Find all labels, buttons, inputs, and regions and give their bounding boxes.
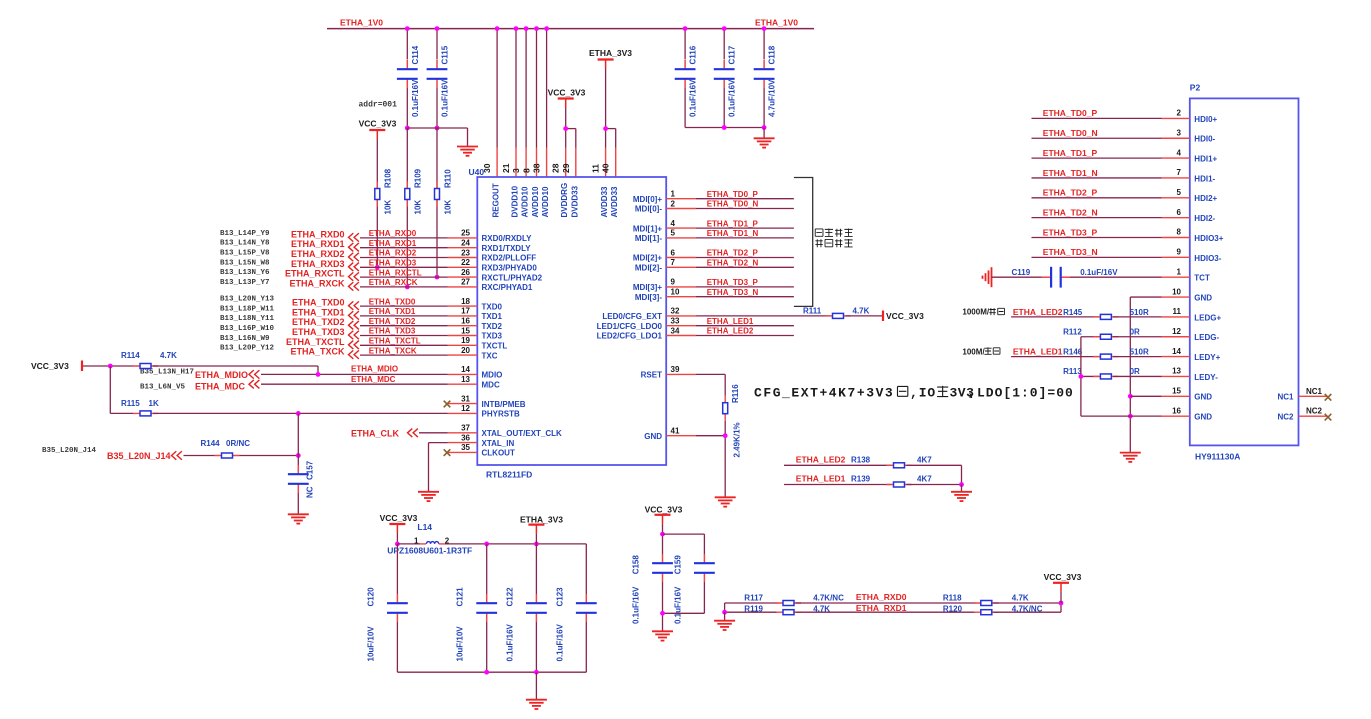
svg-text:ETHA_TD2_N: ETHA_TD2_N <box>1043 207 1098 217</box>
pin 5 HDI2+ of P2 <box>1162 197 1190 199</box>
pin 16 TXD2 of U40 <box>448 325 478 327</box>
svg-text:MDI[2]-: MDI[2]- <box>635 264 662 273</box>
svg-text:INTB/PMEB: INTB/PMEB <box>482 400 526 409</box>
op-amp U40 RTL8211FD chip body <box>477 177 666 465</box>
svg-text:GND: GND <box>1194 413 1212 422</box>
wire ETHA_TD2_P from U40 <box>696 257 794 259</box>
svg-text:HDI1-: HDI1- <box>1194 174 1215 183</box>
svg-text:R119: R119 <box>744 604 763 613</box>
connector P2 HY911130A body <box>1190 98 1299 445</box>
svg-text:VCC_3V3: VCC_3V3 <box>645 505 683 515</box>
wire to ground R117 block <box>724 612 726 620</box>
wire rail to C114 <box>406 29 408 60</box>
wire C114 to gnd line <box>406 88 408 128</box>
svg-text:4.7K: 4.7K <box>160 351 177 360</box>
pin 6 HDI2- of P2 <box>1162 217 1190 219</box>
junction rail pin 21 <box>514 26 519 31</box>
svg-text:16: 16 <box>1172 406 1181 415</box>
svg-text:ETHA_LED1: ETHA_LED1 <box>1013 347 1063 357</box>
svg-text:21: 21 <box>501 163 511 173</box>
resistor R146 510R <box>1093 356 1118 358</box>
junction R144 C157 <box>296 453 301 458</box>
junction C121 bottom <box>484 670 489 675</box>
svg-text:3: 3 <box>511 168 521 173</box>
wire R111 to VCC <box>846 315 883 317</box>
svg-text:REGOUT: REGOUT <box>492 183 501 217</box>
svg-text:ETHA_TXCTL: ETHA_TXCTL <box>369 337 421 346</box>
svg-text:ETHA_RXD2: ETHA_RXD2 <box>291 249 345 259</box>
svg-text:11: 11 <box>591 164 601 173</box>
svg-text:10K: 10K <box>384 200 393 215</box>
wire ETHA_3V3 to pin11/40 <box>605 69 607 148</box>
junction ETHA_3V3 pins 11 40 <box>603 126 608 131</box>
svg-text:0.1uF/16V: 0.1uF/16V <box>673 586 682 624</box>
wire rail to C116 <box>684 29 686 60</box>
svg-text:VCC_3V3: VCC_3V3 <box>380 513 418 523</box>
pin 20 TXC of U40 <box>448 354 478 356</box>
wire R113 to P2 LEDY- <box>1113 375 1162 377</box>
capacitor C157 NC <box>297 465 299 474</box>
svg-text:HY911130A: HY911130A <box>1195 452 1240 462</box>
svg-text:ETHA_RXCK: ETHA_RXCK <box>289 278 345 288</box>
wire R144 to C157 <box>240 455 299 457</box>
svg-text:R110: R110 <box>444 169 453 188</box>
svg-text:ETHA_TD0_N: ETHA_TD0_N <box>1043 128 1098 138</box>
svg-text:35: 35 <box>461 443 470 452</box>
wire R146 to P2 LEDY+ <box>1113 356 1162 358</box>
ground P2 <box>1120 452 1141 454</box>
svg-text:RXD0/RXDLY: RXD0/RXDLY <box>482 234 533 243</box>
svg-text:LED1/CFG_LDO0: LED1/CFG_LDO0 <box>597 322 663 331</box>
svg-text:ETHA_TXD3: ETHA_TXD3 <box>292 327 345 337</box>
svg-text:ETHA_RXD1: ETHA_RXD1 <box>856 603 907 613</box>
svg-text:RSET: RSET <box>641 371 662 380</box>
svg-text:31: 31 <box>461 394 470 403</box>
no-connect X NC1 <box>1325 394 1332 401</box>
pin 18 TXD0 of U40 <box>448 305 478 307</box>
pin 14 LEDY+ of P2 <box>1162 356 1190 358</box>
pin 14 MDIO of U40 <box>448 373 478 375</box>
capacitor C118 4.7uF/10V <box>763 60 765 69</box>
svg-text:10uF/10V: 10uF/10V <box>366 626 375 662</box>
wire VCC to C158 <box>662 524 664 554</box>
svg-text:RXD3/PHYAD0: RXD3/PHYAD0 <box>482 264 538 273</box>
junction on rail at C114 <box>405 26 410 31</box>
svg-text:100M/: 100M/ <box>962 347 985 356</box>
svg-text:ETHA_LED2: ETHA_LED2 <box>1013 307 1063 317</box>
svg-text:0.1uF/16V: 0.1uF/16V <box>632 586 641 624</box>
svg-text:B13_L13P_Y7: B13_L13P_Y7 <box>220 279 270 287</box>
capacitor C123 0.1uF/16V <box>585 544 587 594</box>
svg-text:ETHA_LED2: ETHA_LED2 <box>707 327 754 336</box>
svg-text:4.7K: 4.7K <box>853 307 870 316</box>
svg-text:TXD0: TXD0 <box>482 302 503 311</box>
wire ETHA_TD0_P to P2 <box>1032 117 1162 119</box>
svg-text:MDI[0]+: MDI[0]+ <box>633 195 662 204</box>
svg-text:B13_L13N_Y6: B13_L13N_Y6 <box>220 269 270 277</box>
svg-text:0.1uF/16V: 0.1uF/16V <box>728 79 737 117</box>
pin 30 REGOUT of U40 <box>496 148 498 178</box>
capacitor C119 0.1uF/16V <box>991 267 993 287</box>
wire ETHA_TD1_N from U40 <box>696 237 794 239</box>
ground C158 <box>652 630 673 632</box>
svg-text:R109: R109 <box>414 168 423 188</box>
svg-text:ETHA_RXD0: ETHA_RXD0 <box>369 229 417 238</box>
wire ETHA_TD3_N from U40 <box>696 296 794 298</box>
junction C158 top <box>660 532 665 537</box>
ground R116 <box>715 496 736 498</box>
svg-text:17: 17 <box>461 307 470 316</box>
wire ETHA_TD1_P from U40 <box>696 227 794 229</box>
svg-text:TXD3: TXD3 <box>482 332 503 341</box>
svg-text:13: 13 <box>1172 367 1181 376</box>
junction R110 to ETHA_RXCTL <box>435 275 440 280</box>
svg-text:MDI[1]-: MDI[1]- <box>635 234 662 243</box>
svg-text:5: 5 <box>671 229 676 238</box>
svg-text:B13_L15N_W8: B13_L15N_W8 <box>220 259 270 267</box>
wire GND pin to node <box>696 435 725 437</box>
svg-text:20: 20 <box>461 346 470 355</box>
svg-text:14: 14 <box>1172 347 1181 356</box>
svg-text:MDI[2]+: MDI[2]+ <box>633 254 662 263</box>
resistor R139 4K7 <box>887 484 912 486</box>
pin 5 MDI[1]- of U40 <box>666 237 696 239</box>
wire to bottom ground <box>535 672 537 699</box>
svg-text:DVDDRG: DVDDRG <box>560 183 569 218</box>
wire left gnd branch R117 R119 <box>724 603 726 612</box>
svg-text:1: 1 <box>671 190 676 199</box>
wire rail to pin 8 <box>536 29 538 148</box>
resistor R109 10K <box>406 128 408 287</box>
svg-text:R111: R111 <box>803 307 822 316</box>
svg-text:5: 5 <box>1177 188 1182 197</box>
wire rail to C118 <box>763 29 765 60</box>
svg-text:C159: C159 <box>673 555 682 575</box>
pin 26 RXCTL/PHYAD2 of U40 <box>448 276 478 278</box>
svg-text:ETHA_TD1_P: ETHA_TD1_P <box>1043 148 1098 158</box>
svg-text:LED2/CFG_LDO1: LED2/CFG_LDO1 <box>597 332 663 341</box>
ground under C115 line <box>457 146 478 148</box>
svg-text:ETHA_TXD2: ETHA_TXD2 <box>292 317 345 327</box>
svg-text:RXD1/TXDLY: RXD1/TXDLY <box>482 244 532 253</box>
junction R108 to ETHA_RXD3 <box>375 265 380 270</box>
svg-text:0.1uF/16V: 0.1uF/16V <box>411 79 420 117</box>
svg-text:41: 41 <box>671 427 680 436</box>
svg-text:C116: C116 <box>689 45 698 64</box>
wire ETHA_CLK to pin 37 <box>419 432 448 434</box>
svg-text:ETHA_RXD3: ETHA_RXD3 <box>369 259 417 268</box>
svg-text:16: 16 <box>461 317 470 326</box>
svg-text:HDI1+: HDI1+ <box>1194 155 1217 164</box>
resistor R145 510R <box>1093 316 1118 318</box>
svg-text:8: 8 <box>522 168 532 173</box>
capacitor C115 0.1uF/16V <box>436 60 438 69</box>
svg-text:R139: R139 <box>851 475 871 484</box>
pin 31 INTB/PMEB of U40 <box>448 403 478 405</box>
wire VCC to pin28/29 <box>565 108 567 148</box>
svg-text:0.1uF/16V: 0.1uF/16V <box>1080 268 1118 277</box>
wire R119 to R120 ETHA_RXD1 <box>796 611 976 613</box>
svg-text:HDI2+: HDI2+ <box>1194 194 1217 203</box>
ground C157 <box>288 513 309 515</box>
wire C118 to bottom line <box>763 88 765 128</box>
resistor R112 0R <box>1093 336 1118 338</box>
svg-text:ETHA_TD3_P: ETHA_TD3_P <box>707 278 759 287</box>
capacitor C120 10uF/10V <box>396 544 398 594</box>
svg-text:B35_L13N_H17: B35_L13N_H17 <box>140 369 194 377</box>
pin 21 DVDD10 of U40 <box>515 148 517 178</box>
junction VCC pins 28 29 <box>563 126 568 131</box>
svg-text:27: 27 <box>461 278 470 287</box>
pin 28 DVDDRG of U40 <box>565 148 567 178</box>
svg-text:1: 1 <box>1177 267 1182 276</box>
svg-text:XTAL_OUT/EXT_CLK: XTAL_OUT/EXT_CLK <box>482 429 563 438</box>
svg-text:ETHA_1V0: ETHA_1V0 <box>755 18 798 28</box>
pin 17 TXD1 of U40 <box>448 315 478 317</box>
junction L14 input <box>395 542 400 547</box>
pin 37 XTAL_OUT/EXT_CLK of U40 <box>448 432 478 434</box>
wire ETHA_TD2_P to P2 <box>1032 197 1162 199</box>
svg-text:ETHA_TD0_N: ETHA_TD0_N <box>707 200 759 209</box>
wire R116 to gnd node <box>724 421 726 497</box>
svg-text:C118: C118 <box>768 45 777 64</box>
pin 33 LED1/CFG_LDO0 of U40 <box>666 325 696 327</box>
wire C158 to C159 top <box>663 533 705 535</box>
wire R112 left branch <box>1081 336 1099 338</box>
svg-text:ETHA_LED2: ETHA_LED2 <box>796 455 846 465</box>
svg-text:AVDD33: AVDD33 <box>600 186 609 218</box>
wire GND pin10 net <box>1130 296 1161 298</box>
svg-text:ETHA_TD3_N: ETHA_TD3_N <box>1043 247 1098 257</box>
capacitor C117 0.1uF/16V <box>723 60 725 69</box>
svg-text:ETHA_RXCTL: ETHA_RXCTL <box>285 269 345 279</box>
svg-text:TCT: TCT <box>1194 274 1210 283</box>
pin 34 LED2/CFG_LDO1 of U40 <box>666 335 696 337</box>
ground bottom center <box>526 699 547 701</box>
svg-text:LDO[1:0]=00: LDO[1:0]=00 <box>977 386 1074 401</box>
svg-text:VCC_3V3: VCC_3V3 <box>359 119 397 129</box>
junction R109 to ETHA_RXCK <box>405 285 410 290</box>
wire C158 bottom <box>662 582 664 631</box>
ground R138 R139 <box>961 485 963 492</box>
wire ETHA_TD0_N to P2 <box>1032 137 1162 139</box>
svg-text:TXCTL: TXCTL <box>482 342 508 351</box>
svg-text:NC1: NC1 <box>1306 387 1323 396</box>
wire VCC port to R114 <box>83 365 133 367</box>
svg-text:11: 11 <box>1173 307 1182 316</box>
svg-text:4K7: 4K7 <box>917 456 932 465</box>
junction R116 GND <box>723 433 728 438</box>
svg-text:ETHA_TD2_P: ETHA_TD2_P <box>707 249 759 258</box>
wire C157 vertical <box>297 413 299 465</box>
svg-text:LEDG-: LEDG- <box>1194 333 1219 342</box>
svg-text:ETHA_TD1_P: ETHA_TD1_P <box>707 219 759 228</box>
svg-text:ETHA_CLK: ETHA_CLK <box>351 428 400 438</box>
wire C119 to P2 TCT <box>1070 276 1162 278</box>
svg-text:ETHA_TD1_N: ETHA_TD1_N <box>707 229 759 238</box>
pin 25 RXD0/RXDLY of U40 <box>448 237 478 239</box>
svg-text:B35_L20N_J14: B35_L20N_J14 <box>42 447 97 455</box>
svg-text:ETHA_TXD1: ETHA_TXD1 <box>369 307 416 316</box>
length-matching bracket <box>794 178 813 307</box>
svg-text:3: 3 <box>1177 128 1182 137</box>
pin 1 MDI[0]+ of U40 <box>666 198 696 200</box>
junction rail pin 38 <box>544 26 549 31</box>
svg-text:R146: R146 <box>1063 348 1083 357</box>
svg-text:10: 10 <box>671 288 680 297</box>
svg-text:VCC_3V3: VCC_3V3 <box>1044 572 1082 582</box>
pin 13 MDC of U40 <box>448 383 478 385</box>
svg-text:TXD1: TXD1 <box>482 312 503 321</box>
wire VCC to L14 node <box>396 533 398 544</box>
svg-text:HDI0-: HDI0- <box>1194 135 1215 144</box>
wire ETHA_LED1 from U40 <box>696 325 794 327</box>
svg-text:ETHA_MDC: ETHA_MDC <box>351 375 396 384</box>
svg-text:AVDD10: AVDD10 <box>521 186 530 218</box>
pin 8 AVDD10 of U40 <box>536 148 538 178</box>
junction rail pin 8 <box>534 26 539 31</box>
svg-text:ETHA_1V0: ETHA_1V0 <box>340 18 383 28</box>
no-connect X pin 35 <box>444 449 451 456</box>
svg-text:ETHA_TXD0: ETHA_TXD0 <box>292 298 345 308</box>
resistor R116 2.49K/1% <box>724 396 726 421</box>
wire ETHA_TD0_N from U40 <box>696 208 794 210</box>
wire bottom line C116-C118 <box>685 127 764 129</box>
no-connect X pin 31 <box>444 401 451 408</box>
svg-text:HDIO3-: HDIO3- <box>1194 254 1221 263</box>
svg-text:NC2: NC2 <box>1277 413 1294 422</box>
power port VCC_3V3 at R111 <box>882 311 884 322</box>
svg-text:10K: 10K <box>444 200 453 215</box>
svg-text:UPZ1608U601-1R3TF: UPZ1608U601-1R3TF <box>387 546 472 556</box>
svg-text:MDC: MDC <box>482 380 500 389</box>
svg-text:9: 9 <box>1177 248 1182 257</box>
svg-text:ETHA_TXCK: ETHA_TXCK <box>290 347 345 357</box>
pin 8 HDIO3+ of P2 <box>1162 237 1190 239</box>
svg-text:CLKOUT: CLKOUT <box>482 449 515 458</box>
svg-text:4: 4 <box>1177 148 1182 157</box>
wire rail to pin 21 <box>515 29 517 148</box>
svg-text:MDI[0]-: MDI[0]- <box>635 205 662 214</box>
svg-text:VCC_3V3: VCC_3V3 <box>31 361 69 371</box>
resistor R138 4K7 <box>887 464 912 466</box>
svg-text:HDIO3+: HDIO3+ <box>1194 234 1223 243</box>
no-connect X NC2 <box>1325 414 1332 421</box>
wire C121 to bottom rail <box>486 622 488 672</box>
svg-text:P2: P2 <box>1190 83 1201 93</box>
resistor R117 4.7K/NC <box>776 602 801 604</box>
resistor R115 1K <box>133 412 158 414</box>
svg-text:C120: C120 <box>366 587 375 607</box>
wire R145 to P2 LEDG+ <box>1113 316 1162 318</box>
junction on rail at C115 <box>435 26 440 31</box>
pin 19 TXCTL of U40 <box>448 344 478 346</box>
resistor R118 4.7K <box>974 602 999 604</box>
svg-text:9: 9 <box>671 278 676 287</box>
pin NC2 of P2 <box>1299 415 1328 417</box>
junction VCC RXD0 <box>1059 601 1064 606</box>
svg-text:2.49K/1%: 2.49K/1% <box>733 422 742 457</box>
svg-text:B13_L16N_W9: B13_L16N_W9 <box>220 335 270 343</box>
svg-text:ETHA_TD1_N: ETHA_TD1_N <box>1043 168 1098 178</box>
junction C121 top <box>484 542 489 547</box>
svg-text:15: 15 <box>1172 387 1181 396</box>
ground R117 block <box>714 620 735 622</box>
wire R118 to VCC <box>993 602 1061 604</box>
svg-text:C121: C121 <box>456 587 465 607</box>
wire GND pin15 <box>1130 395 1161 397</box>
svg-text:19: 19 <box>461 336 470 345</box>
svg-text:6: 6 <box>1177 208 1182 217</box>
svg-text:ETHA_TXCK: ETHA_TXCK <box>369 346 417 355</box>
svg-text:13: 13 <box>461 375 470 384</box>
svg-text:4.7uF/10V: 4.7uF/10V <box>768 79 777 117</box>
svg-text:C158: C158 <box>632 555 641 575</box>
pin 36 XTAL_IN of U40 <box>448 442 478 444</box>
svg-text:ETHA_TD2_N: ETHA_TD2_N <box>707 259 759 268</box>
wire ETHA_TD3_N to P2 <box>1032 256 1162 258</box>
capacitor C121 10uF/10V <box>486 544 488 594</box>
svg-text:C123: C123 <box>555 587 564 607</box>
junction R114 MDIO <box>316 372 321 377</box>
svg-text:C115: C115 <box>441 45 450 64</box>
svg-text:1000M/: 1000M/ <box>962 308 989 317</box>
resistor R144 0R/NC <box>215 455 240 457</box>
svg-text:B13_L18P_W11: B13_L18P_W11 <box>220 305 275 313</box>
svg-text:38: 38 <box>532 163 542 173</box>
svg-text:R138: R138 <box>851 456 871 465</box>
svg-text:ETHA_RXD2: ETHA_RXD2 <box>369 249 417 258</box>
junction C122 top <box>534 542 539 547</box>
svg-text:22: 22 <box>461 258 470 267</box>
svg-text:R108: R108 <box>384 168 393 188</box>
svg-text:28: 28 <box>551 163 561 173</box>
junction rail C117 <box>722 26 727 31</box>
svg-text:ETHA_MDIO: ETHA_MDIO <box>351 365 398 374</box>
svg-text:C122: C122 <box>505 587 514 607</box>
pin 38 AVDD10 of U40 <box>546 148 548 178</box>
pin 16 GND of P2 <box>1162 415 1190 417</box>
wire ETHA_LED2 from U40 <box>696 335 794 337</box>
pin 2 HDI0+ of P2 <box>1162 117 1190 119</box>
svg-text:AVDD33: AVDD33 <box>610 186 619 218</box>
svg-text:PHYRSTB: PHYRSTB <box>482 410 520 419</box>
svg-text:LED0/CFG_EXT: LED0/CFG_EXT <box>602 312 662 321</box>
pin NC1 of P2 <box>1299 395 1328 397</box>
wire ETHA_TD1_N to P2 <box>1032 177 1162 179</box>
wire R114 to MDIO <box>153 365 318 367</box>
svg-text:R118: R118 <box>943 594 962 603</box>
pin 15 GND of P2 <box>1162 395 1190 397</box>
junction C114 bottom <box>405 126 410 131</box>
svg-text:,IO: ,IO <box>910 386 936 401</box>
wire ETHA_LED2 to R145 <box>1011 316 1099 318</box>
svg-text:ETHA_TXCTL: ETHA_TXCTL <box>286 337 345 347</box>
svg-text:33: 33 <box>671 317 680 326</box>
svg-text:ETHA_MDIO: ETHA_MDIO <box>195 370 248 380</box>
svg-text:B13_L14N_Y8: B13_L14N_Y8 <box>220 240 270 248</box>
svg-text:ETHA_MDC: ETHA_MDC <box>195 382 246 392</box>
wire ETHA_TD0_P from U40 <box>696 198 794 200</box>
svg-text:39: 39 <box>671 365 680 374</box>
svg-text:R145: R145 <box>1063 308 1083 317</box>
svg-text:ETHA_TD0_P: ETHA_TD0_P <box>1043 108 1098 118</box>
svg-text:LEDY-: LEDY- <box>1194 373 1218 382</box>
svg-text:R144: R144 <box>201 439 221 448</box>
svg-text:510R: 510R <box>1130 308 1149 317</box>
svg-text:XTAL_IN: XTAL_IN <box>482 439 515 448</box>
svg-text:C119: C119 <box>1012 268 1031 277</box>
